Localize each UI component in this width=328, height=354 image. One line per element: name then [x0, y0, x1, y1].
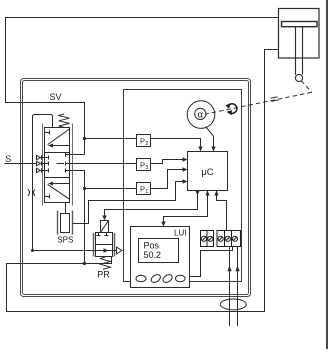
junction B/P1 [83, 187, 86, 190]
section dividers [45, 153, 70, 178]
svg-text:SV: SV [49, 92, 61, 102]
angle sensor inner circle [195, 108, 206, 119]
center dashes [57, 163, 65, 165]
angle sensor big circle [187, 101, 215, 129]
wire B to PR bottom port [85, 257, 112, 264]
valve SV body [41, 124, 73, 206]
uC box [188, 152, 228, 191]
right external port stubs [70, 155, 73, 171]
exhaust triangle top [37, 155, 41, 159]
supply triangle middle [37, 161, 41, 165]
PR internal T ports [97, 233, 109, 236]
junction B/bottom [83, 262, 86, 265]
LUI to terminal wire [190, 247, 233, 277]
svg-text:α: α [198, 109, 204, 120]
LUI button 3 [162, 273, 174, 284]
svg-text:PR: PR [97, 270, 110, 280]
P3 box [137, 159, 151, 171]
LUI button 2 [150, 273, 162, 284]
S supply line [5, 163, 37, 165]
wire A port stub [70, 154, 85, 156]
terminal wire from uC [217, 191, 227, 231]
proportional rails [42, 124, 44, 206]
svg-text:P: P [140, 185, 145, 194]
svg-text:2: 2 [145, 141, 148, 147]
pilot/PR supply line horizontal [33, 250, 96, 252]
right page border [326, 0, 328, 349]
P2 box [137, 135, 151, 147]
P3 sense line [73, 160, 185, 164]
dashed feedback linkage [206, 81, 312, 114]
orifice on pilot line [28, 189, 35, 196]
PR exhaust triangle [117, 247, 122, 254]
exhaust triangle bottom [37, 168, 41, 172]
piston rod [296, 27, 303, 75]
P2 sense line [85, 139, 201, 155]
enclosure (double border) [21, 79, 251, 297]
external cable wire 2 [237, 247, 239, 327]
PR drive wire from uC [105, 191, 198, 217]
svg-text:P: P [140, 137, 145, 146]
svg-text:Pos: Pos [144, 240, 160, 250]
svg-text:S: S [5, 154, 11, 164]
LUI display [139, 239, 179, 263]
top section: blocked T top-left [45, 131, 50, 135]
svg-text:3: 3 [145, 165, 148, 171]
svg-text:1: 1 [145, 189, 148, 195]
LUI wire from uC [164, 191, 208, 223]
rod end circle [295, 74, 302, 81]
LUI button 4 [176, 275, 186, 282]
cable gland ellipse [220, 299, 246, 310]
svg-text:P: P [140, 161, 145, 170]
valve spring (top right) [59, 114, 70, 128]
middle section internal blocked ports left [45, 156, 49, 173]
inner electronics box [124, 90, 242, 282]
PR solenoid box with diagonal [101, 221, 109, 233]
PR valve [94, 221, 122, 270]
wire B (valve port B down, around bottom, to cylinder right loop) [7, 50, 279, 312]
SPS wire to uC [73, 182, 185, 224]
valve body box [45, 128, 70, 203]
LUI button 1 [136, 275, 146, 282]
terminal block group B [217, 231, 241, 247]
cylinder actuator [279, 9, 320, 59]
SPS box [61, 214, 70, 233]
left external port stubs with bars [41, 155, 45, 172]
svg-text:SPS: SPS [57, 236, 73, 245]
SPS rails [58, 211, 73, 235]
SPS actuator stub [65, 203, 67, 214]
pilot line from PR to valve top (with rounded corners) [33, 115, 53, 251]
P1 box [137, 183, 151, 195]
terminal screws [201, 236, 237, 241]
sensor link to uC [206, 127, 214, 148]
bottom section blocked T bottom-left [45, 195, 50, 199]
wire A (valve port A to cylinder, outer left/top loop) [6, 18, 279, 155]
LUI unit box [131, 227, 190, 288]
lever marks [271, 97, 279, 101]
bottom section arrow (left) + diagonal [49, 183, 70, 185]
rotation symbol [225, 103, 236, 115]
terminal block group A [201, 231, 214, 247]
PR spring below [101, 257, 111, 270]
top section arrow (left) + diagonal [49, 145, 70, 147]
PR flow arrow [96, 250, 117, 252]
PR main box [96, 233, 113, 257]
piston bar [282, 22, 318, 27]
external cable wire 1 [229, 247, 231, 327]
svg-text:50.2: 50.2 [144, 250, 162, 260]
P1 sense line [85, 170, 185, 189]
svg-text:μC: μC [201, 167, 213, 178]
PR rails [94, 233, 115, 257]
svg-text:LUI: LUI [174, 229, 186, 238]
middle section internal blocked ports right [66, 153, 70, 173]
